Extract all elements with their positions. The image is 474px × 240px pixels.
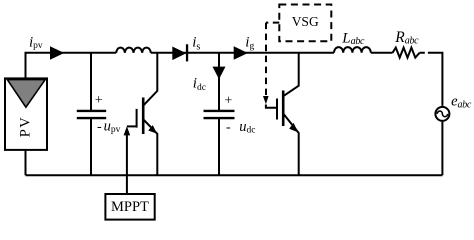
wire C2 upper lead [218, 53, 220, 111]
PV box [5, 78, 47, 149]
svg-text:Labc: Labc [341, 30, 365, 47]
diode D1 [172, 44, 188, 61]
MPPT box [105, 194, 154, 220]
svg-text:VSG: VSG [292, 14, 319, 29]
svg-text:is: is [192, 34, 200, 52]
svg-text:+: + [95, 93, 103, 108]
svg-text:Rabc: Rabc [394, 29, 419, 47]
svg-text:-upv: -upv [97, 119, 121, 136]
wire C1 upper lead [90, 53, 92, 111]
svg-text:-udc: -udc [226, 119, 256, 136]
wire C1 lower lead [90, 119, 92, 176]
wire L_abc to R_abc [371, 52, 393, 54]
svg-text:MPPT: MPPT [111, 199, 149, 215]
inductor L_abc [334, 47, 371, 53]
capacitor C2 [204, 111, 235, 118]
inductor L1 (boost) [116, 48, 151, 53]
svg-text:ipv: ipv [29, 34, 43, 51]
wire bottom bus [26, 174, 443, 176]
wire Q2 collector lead [284, 53, 299, 96]
svg-text:+: + [224, 94, 232, 109]
svg-text:idc: idc [193, 75, 206, 93]
resistor R_abc [393, 48, 420, 58]
wire C2 lower lead [218, 119, 220, 176]
wire Q1 emitter lead [144, 120, 157, 175]
current arrow i_dc [213, 67, 226, 80]
current arrow i_g [234, 46, 248, 59]
VSG box [279, 5, 331, 42]
wire resistor to grid corner [420, 53, 443, 106]
wire MPPT gate drive [124, 126, 137, 194]
wire top bus middle [151, 52, 334, 54]
wire top bus left [26, 53, 117, 79]
PV cell triangle [7, 80, 45, 108]
transistor Q2 (inverter IGBT) [277, 91, 283, 127]
wire VSG gate drive (dashed) [263, 23, 279, 108]
current arrow i_pv [50, 46, 64, 59]
svg-text:ig: ig [245, 34, 254, 51]
svg-text:PV: PV [17, 116, 33, 138]
wire Q2 emitter lead [284, 114, 299, 175]
wire Q1 collector lead [144, 53, 157, 105]
AC source e_abc [435, 107, 449, 121]
transistor Q1 (boost IGBT) [137, 98, 144, 135]
svg-text:eabc: eabc [451, 94, 472, 111]
wire PV negative lead [25, 150, 27, 175]
capacitor C1 [77, 111, 106, 118]
wire AC source to bottom bus [441, 122, 443, 175]
